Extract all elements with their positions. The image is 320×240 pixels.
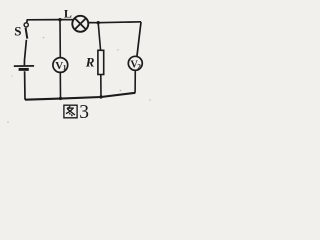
voltmeter V2 xyxy=(128,56,142,71)
switch S xyxy=(24,23,28,39)
svg-text:1: 1 xyxy=(63,63,67,72)
resistor R xyxy=(98,50,104,74)
wire: top rail left (switch to lamp) xyxy=(27,20,74,23)
wire: top rail right (lamp to top-right corner) xyxy=(88,21,141,24)
junction: V1 bottom xyxy=(59,97,62,100)
caption 图3 xyxy=(64,102,89,123)
svg-text:R: R xyxy=(85,55,95,70)
label L xyxy=(64,7,72,21)
wire: R branch upper xyxy=(98,23,100,51)
junction: R tap on top rail xyxy=(97,21,100,24)
voltmeter V1 xyxy=(53,58,68,73)
label R xyxy=(85,55,95,70)
battery xyxy=(14,66,34,70)
wire: V1 branch lower xyxy=(59,72,61,98)
wire: left rail upper (battery up to switch blade) xyxy=(24,40,26,65)
label S xyxy=(14,23,21,38)
scan speckle xyxy=(7,37,150,123)
svg-text:2: 2 xyxy=(137,62,141,71)
svg-text:S: S xyxy=(14,23,21,38)
lamp L xyxy=(72,16,88,32)
junction: R bottom xyxy=(99,95,102,98)
wire: right rail (top corner down to V2) xyxy=(137,22,141,57)
svg-text:L: L xyxy=(64,7,72,21)
wire: bottom rail xyxy=(25,93,135,100)
wire: V2 to bottom rail xyxy=(134,70,136,93)
wire: V1 branch upper xyxy=(59,20,61,58)
wire: left rail lower (bottom corner up to battery) xyxy=(24,71,26,100)
junction: V1 tap on top rail xyxy=(58,18,61,21)
svg-text:3: 3 xyxy=(79,102,89,123)
wire: R branch lower xyxy=(100,75,102,98)
